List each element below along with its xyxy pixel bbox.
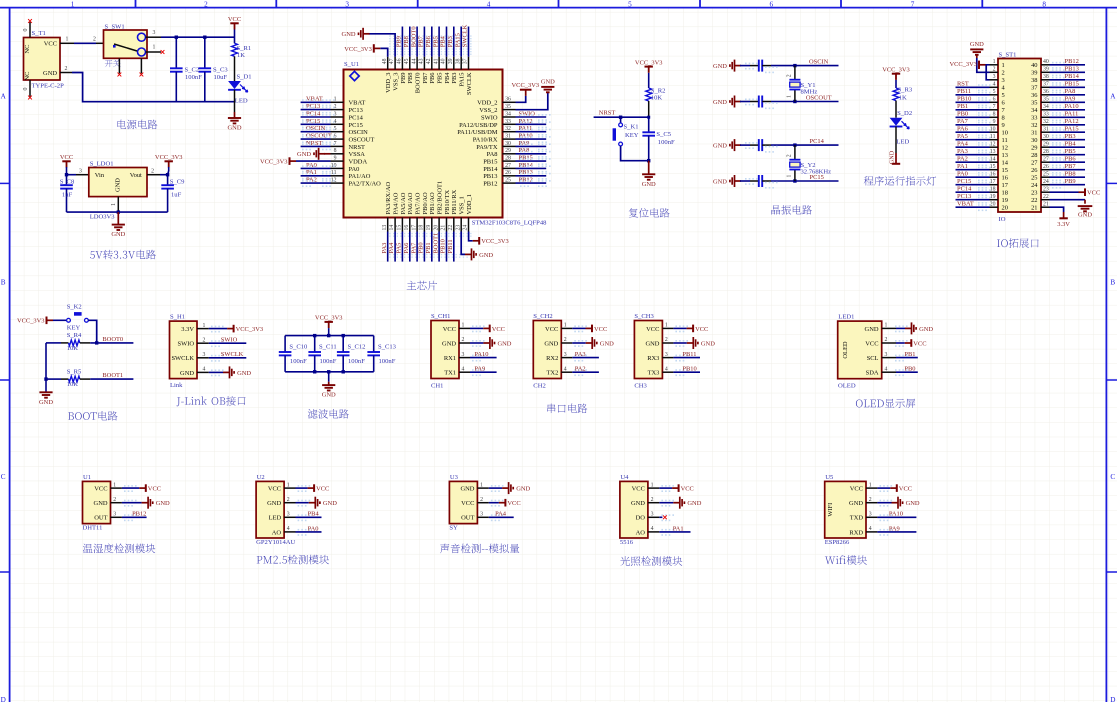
svg-text:PB4: PB4 [1065,141,1077,148]
svg-text:2: 2 [885,337,888,343]
svg-text:VCC: VCC [850,486,863,493]
svg-text:WIFI: WIFI [827,503,834,517]
svg-text:RX3: RX3 [647,355,659,362]
svg-text:6: 6 [770,1,774,9]
svg-text:1: 1 [869,482,872,488]
svg-text:SWCLK: SWCLK [171,355,194,362]
svg-text:3: 3 [564,352,567,358]
svg-text:31: 31 [505,134,511,140]
svg-text:32: 32 [1031,122,1037,129]
svg-text:1: 1 [202,323,205,329]
svg-text:NRST: NRST [306,140,323,147]
svg-text:BOOT0: BOOT0 [415,73,422,94]
svg-text:PC14: PC14 [810,138,825,145]
svg-text:29: 29 [1031,145,1037,152]
svg-text:PA9: PA9 [474,366,485,373]
svg-text:PB8: PB8 [407,73,414,84]
svg-text:PA3: PA3 [381,243,388,254]
svg-text:100nF: 100nF [379,358,396,365]
svg-text:PA15: PA15 [1065,126,1079,133]
svg-text:27: 27 [505,163,511,169]
svg-text:NC: NC [24,72,31,81]
svg-text:18: 18 [419,225,425,231]
svg-text:PA3: PA3 [575,351,586,358]
svg-text:VCC: VCC [94,486,107,493]
svg-text:38: 38 [1043,74,1049,80]
svg-text:3: 3 [287,512,290,518]
svg-text:GND: GND [906,500,920,507]
svg-text:2: 2 [204,1,208,9]
svg-text:S_C5: S_C5 [656,131,671,138]
svg-text:PB6: PB6 [425,35,432,47]
svg-text:IO: IO [999,216,1006,223]
svg-text:23: 23 [1031,190,1037,197]
svg-text:PC14: PC14 [349,114,364,121]
svg-text:36: 36 [1031,92,1038,99]
svg-text:VDD_2: VDD_2 [477,100,497,107]
svg-text:23: 23 [455,225,461,231]
svg-text:PA10: PA10 [889,511,903,518]
svg-text:29: 29 [505,148,511,154]
svg-text:20: 20 [1002,205,1008,212]
svg-text:S_R4: S_R4 [67,332,82,339]
svg-text:U5: U5 [825,474,834,481]
svg-text:VCC: VCC [461,500,474,507]
svg-text:2: 2 [480,497,483,503]
svg-text:PB6: PB6 [429,72,436,84]
svg-text:3.3V: 3.3V [1057,221,1070,228]
svg-text:VCC: VCC [695,326,708,333]
svg-text:5: 5 [993,89,996,95]
svg-text:S_K1: S_K1 [624,124,639,131]
svg-text:S_C10: S_C10 [289,344,308,351]
svg-text:3.3V: 3.3V [181,326,194,333]
svg-text:GND: GND [479,252,493,259]
svg-text:4: 4 [487,1,491,9]
svg-text:C: C [1110,473,1115,481]
svg-text:9: 9 [993,119,996,125]
svg-text:4: 4 [651,526,654,532]
svg-text:4: 4 [202,367,205,373]
svg-text:32: 32 [505,126,511,132]
svg-text:3: 3 [462,352,465,358]
svg-text:1: 1 [287,482,290,488]
svg-text:2: 2 [113,497,116,503]
svg-text:S_C8: S_C8 [60,178,75,185]
svg-text:1: 1 [787,95,793,98]
svg-text:OLED: OLED [842,341,849,359]
svg-text:100nF: 100nF [185,74,202,81]
svg-text:PB1: PB1 [957,103,968,110]
svg-text:PA2/TX/AO: PA2/TX/AO [349,181,382,188]
svg-text:GND: GND [442,340,456,347]
svg-text:PA1: PA1 [306,169,317,176]
svg-text:S_R3: S_R3 [898,87,913,94]
svg-text:PA10: PA10 [474,351,488,358]
svg-text:11: 11 [1002,137,1008,144]
svg-text:GND: GND [498,340,512,347]
svg-text:CH1: CH1 [431,383,443,390]
svg-text:PA10: PA10 [1065,103,1079,110]
svg-text:2: 2 [665,337,668,343]
svg-text:4: 4 [869,526,872,532]
svg-text:1: 1 [564,323,567,329]
svg-text:32.768KHz: 32.768KHz [801,169,832,176]
svg-text:10uF: 10uF [214,74,228,81]
svg-text:31: 31 [1031,130,1037,137]
svg-text:PB15: PB15 [519,155,533,162]
svg-text:U2: U2 [257,474,265,481]
svg-text:GND: GND [970,41,984,48]
svg-text:GND: GND [228,125,242,132]
svg-text:16: 16 [404,225,410,231]
svg-text:8: 8 [1002,115,1005,122]
svg-text:27: 27 [1031,160,1038,167]
svg-text:16: 16 [1002,175,1009,182]
svg-text:1: 1 [787,175,793,178]
svg-text:PB8: PB8 [403,36,410,47]
svg-text:PB5: PB5 [1065,148,1076,155]
svg-text:NC: NC [24,45,31,54]
svg-text:8: 8 [334,148,337,154]
svg-text:GND: GND [323,500,337,507]
svg-text:VCC: VCC [443,326,456,333]
svg-text:39: 39 [1043,67,1049,73]
svg-text:6: 6 [993,97,996,103]
svg-text:PB2/BOOT1: PB2/BOOT1 [437,181,444,215]
svg-text:VDDA: VDDA [349,159,368,166]
svg-text:22: 22 [1031,197,1037,204]
svg-text:BOOT0: BOOT0 [410,26,417,47]
svg-text:PB11: PB11 [957,88,971,95]
svg-text:1: 1 [71,1,75,9]
svg-text:0: 0 [23,88,29,91]
svg-text:PA3: PA3 [957,148,968,155]
svg-text:1: 1 [462,323,465,329]
svg-text:PB15: PB15 [483,159,497,166]
svg-text:CH3: CH3 [634,383,647,390]
svg-text:SWCLK: SWCLK [221,351,244,358]
svg-text:30: 30 [1043,134,1049,140]
svg-text:26: 26 [1031,167,1038,174]
svg-text:S_H1: S_H1 [170,314,185,321]
svg-text:PA11: PA11 [1065,111,1079,118]
svg-text:VBAT: VBAT [306,96,323,103]
svg-text:PA2: PA2 [957,156,968,163]
svg-text:PB10: PB10 [682,366,696,373]
svg-text:VCC_3V3: VCC_3V3 [344,46,372,53]
svg-text:S_CH1: S_CH1 [431,313,450,320]
svg-text:26: 26 [1043,164,1049,170]
svg-text:PA8: PA8 [487,151,498,158]
svg-text:PA4: PA4 [957,141,969,148]
svg-text:STM32F103C8T6_LQFP48: STM32F103C8T6_LQFP48 [472,220,547,227]
svg-text:32: 32 [1043,119,1049,125]
svg-text:5516: 5516 [620,539,634,546]
svg-text:PA0: PA0 [957,171,968,178]
svg-text:PB0: PB0 [418,242,425,253]
svg-text:40: 40 [441,58,447,64]
svg-text:21: 21 [441,225,447,231]
svg-text:VCC_3V3: VCC_3V3 [315,315,343,322]
svg-text:10K: 10K [67,345,79,352]
svg-text:VCC: VCC [1087,190,1100,197]
svg-text:VSS_3: VSS_3 [392,73,399,91]
svg-text:100nF: 100nF [290,358,307,365]
svg-text:23: 23 [1043,187,1049,193]
svg-text:PB11: PB11 [447,239,454,253]
svg-text:11: 11 [990,134,996,140]
svg-text:PA5/AO: PA5/AO [400,192,407,214]
svg-text:SWCLK: SWCLK [462,24,469,47]
svg-text:1: 1 [1002,62,1005,69]
svg-text:25: 25 [1043,172,1049,178]
svg-text:VCC_3V3: VCC_3V3 [949,61,977,68]
svg-text:1: 1 [651,482,654,488]
svg-text:KEY: KEY [625,132,639,139]
svg-text:PA15: PA15 [454,33,461,47]
svg-text:1uF: 1uF [62,191,73,198]
svg-text:40: 40 [1031,62,1037,69]
svg-text:PA7: PA7 [410,242,417,254]
svg-text:100nF: 100nF [348,358,365,365]
svg-text:GND: GND [43,70,57,77]
svg-text:VCC: VCC [681,486,694,493]
svg-text:VCC: VCC [316,486,329,493]
svg-text:VCC: VCC [268,486,281,493]
svg-text:PB12: PB12 [1065,58,1079,65]
svg-text:PA6/AO: PA6/AO [407,192,414,214]
svg-text:S_SW1: S_SW1 [105,24,125,31]
svg-text:100nF: 100nF [658,139,675,146]
svg-text:OSCOUT: OSCOUT [349,137,375,144]
svg-text:PA9/TX: PA9/TX [476,144,498,151]
svg-text:TYPE-C-2P: TYPE-C-2P [32,83,65,90]
svg-text:PB0/AO: PB0/AO [422,192,429,215]
svg-text:PA9: PA9 [519,140,530,147]
svg-text:S_C9: S_C9 [170,178,185,185]
svg-text:35: 35 [505,104,511,110]
svg-text:35: 35 [1043,97,1049,103]
svg-text:PA11/USB/DM: PA11/USB/DM [457,129,498,136]
svg-text:GND: GND [687,500,701,507]
svg-text:PB4: PB4 [444,72,451,84]
svg-text:VSS_2: VSS_2 [479,107,497,114]
svg-text:PB7: PB7 [422,72,429,84]
svg-text:37: 37 [463,58,469,64]
svg-text:GND: GND [713,63,727,70]
svg-text:VCC: VCC [632,486,645,493]
svg-text:26: 26 [505,170,511,176]
svg-text:LDO3V3: LDO3V3 [90,213,116,220]
svg-text:PB12: PB12 [483,181,497,188]
svg-text:PA1: PA1 [673,525,684,532]
svg-text:GND: GND [713,99,727,106]
svg-text:42: 42 [426,58,432,64]
svg-text:PC15: PC15 [957,178,971,185]
svg-text:VCC_3V3: VCC_3V3 [17,318,45,325]
svg-text:BOOT1: BOOT1 [102,372,123,379]
svg-text:10: 10 [1002,130,1008,137]
svg-text:8MHz: 8MHz [801,89,818,96]
svg-text:PB3: PB3 [451,73,458,84]
svg-text:S_C12: S_C12 [348,344,366,351]
svg-text:S_C11: S_C11 [319,344,337,351]
svg-text:GND: GND [94,500,108,507]
svg-text:8: 8 [993,112,996,118]
svg-text:SWIO: SWIO [178,341,195,348]
svg-text:PB14: PB14 [519,162,534,169]
svg-text:2: 2 [93,37,96,43]
svg-text:3: 3 [665,352,668,358]
svg-text:BOOT0: BOOT0 [102,336,123,343]
svg-text:PB1: PB1 [904,351,915,358]
svg-text:PB13: PB13 [483,173,497,180]
svg-text:1: 1 [885,323,888,329]
svg-text:S_R2: S_R2 [651,87,666,94]
svg-text:PA5: PA5 [957,133,968,140]
svg-text:2: 2 [787,74,793,77]
svg-text:SY: SY [449,525,458,532]
svg-text:OUT: OUT [94,515,107,522]
svg-text:PA6: PA6 [957,126,969,133]
svg-text:PB12: PB12 [519,177,533,184]
svg-text:VCC: VCC [646,326,659,333]
svg-text:LED: LED [235,97,248,104]
svg-text:PB10: PB10 [957,96,971,103]
svg-text:20: 20 [433,225,439,231]
svg-text:10K: 10K [67,381,79,388]
svg-text:OSCIN: OSCIN [306,125,326,132]
svg-text:2: 2 [151,168,154,174]
svg-text:1: 1 [111,203,117,206]
svg-text:PA7/AO: PA7/AO [415,192,422,214]
svg-text:A: A [1110,93,1116,101]
svg-text:3: 3 [113,512,116,518]
svg-text:RXD: RXD [849,529,863,536]
svg-text:PA5: PA5 [396,243,403,254]
svg-text:PA15: PA15 [459,73,466,87]
svg-text:SDA: SDA [866,370,879,377]
svg-text:24: 24 [463,225,469,231]
svg-text:PA6: PA6 [403,242,410,254]
svg-text:TX3: TX3 [648,370,660,377]
svg-text:VSS_1: VSS_1 [459,196,466,214]
svg-text:33: 33 [1043,112,1049,118]
svg-text:1: 1 [665,323,668,329]
svg-text:S_C3: S_C3 [213,67,228,74]
svg-text:39: 39 [448,58,454,64]
svg-text:24: 24 [1031,182,1038,189]
svg-text:2: 2 [651,497,654,503]
svg-text:PB15: PB15 [1065,81,1079,88]
svg-text:VCC_3V3: VCC_3V3 [882,67,910,74]
svg-text:NRST: NRST [349,144,366,151]
svg-text:PC13: PC13 [306,103,320,110]
svg-text:34: 34 [1043,104,1049,110]
svg-text:14: 14 [389,225,395,231]
svg-text:LED: LED [896,139,909,146]
svg-text:NRST: NRST [599,110,616,117]
svg-text:S_CH3: S_CH3 [634,313,654,320]
svg-text:GND: GND [713,143,727,150]
svg-text:7: 7 [993,104,996,110]
svg-text:3: 3 [993,74,996,80]
svg-text:SWCLK: SWCLK [466,72,473,95]
svg-text:3: 3 [1002,77,1005,84]
svg-text:33: 33 [505,119,511,125]
svg-text:S_CH2: S_CH2 [533,313,552,320]
svg-text:GND: GND [541,79,555,86]
svg-text:GND: GND [39,399,53,406]
svg-text:37: 37 [1031,85,1038,92]
svg-text:28: 28 [505,156,511,162]
svg-text:D: D [1110,696,1115,702]
svg-text:S_D2: S_D2 [897,110,912,117]
svg-text:38: 38 [455,58,461,64]
svg-text:GND: GND [642,181,656,188]
svg-text:PA12/USB/DP: PA12/USB/DP [459,122,498,129]
svg-text:13: 13 [382,225,388,231]
svg-text:3: 3 [651,512,654,518]
svg-text:0: 0 [23,29,29,32]
svg-text:VCC: VCC [492,326,505,333]
svg-text:GND: GND [342,31,356,38]
svg-text:S_D1: S_D1 [237,74,252,81]
svg-text:S_R5: S_R5 [67,368,82,375]
svg-text:VSSA: VSSA [349,151,366,158]
svg-text:PA3/RX/AO: PA3/RX/AO [385,181,392,214]
svg-text:GND: GND [600,340,614,347]
svg-text:OSCIN: OSCIN [809,58,829,65]
svg-text:21: 21 [1031,205,1037,212]
svg-text:37: 37 [1043,82,1049,88]
svg-text:1: 1 [993,59,996,65]
svg-text:Vin: Vin [95,172,105,179]
svg-text:PA10: PA10 [519,133,533,140]
svg-text:OUT: OUT [461,515,474,522]
svg-text:KEY: KEY [67,324,81,331]
svg-text:PC15: PC15 [349,122,363,129]
svg-text:PB1/AO: PB1/AO [429,192,436,215]
svg-text:4: 4 [665,366,668,372]
svg-text:GND: GND [713,178,727,185]
svg-text:17: 17 [411,225,417,231]
svg-text:B: B [1,279,6,287]
svg-text:PB0: PB0 [957,111,968,118]
svg-text:GND: GND [865,326,879,333]
svg-text:AO: AO [636,529,646,536]
svg-text:PA10/RX: PA10/RX [473,137,498,144]
svg-text:PB9: PB9 [396,36,403,47]
svg-text:2: 2 [287,497,290,503]
svg-text:44: 44 [411,58,417,64]
svg-text:8: 8 [1042,1,1046,9]
svg-text:18: 18 [1002,190,1008,197]
svg-text:S_U1: S_U1 [344,61,359,68]
svg-text:21: 21 [1043,202,1049,208]
svg-text:DO: DO [636,515,646,522]
svg-text:36: 36 [1043,89,1049,95]
svg-text:14: 14 [1002,160,1009,167]
svg-text:VCC: VCC [594,326,607,333]
svg-text:PA4/AO: PA4/AO [392,192,399,214]
svg-text:GND: GND [297,151,311,158]
svg-text:CH2: CH2 [533,383,545,390]
svg-text:1: 1 [66,37,69,43]
svg-text:1K: 1K [237,52,245,59]
svg-text:PA4: PA4 [495,511,507,518]
